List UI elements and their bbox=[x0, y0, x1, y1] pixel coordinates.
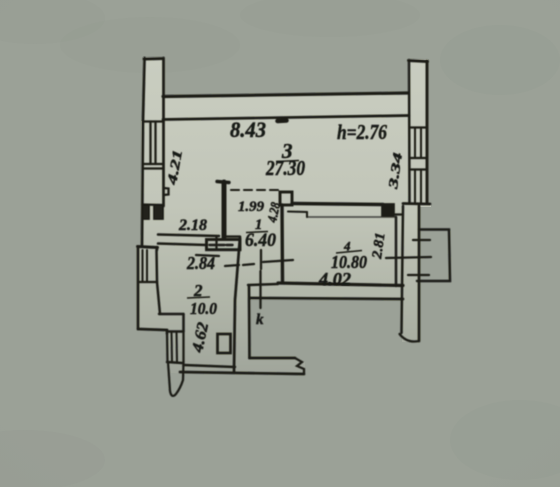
wall: corridor bottom line bbox=[250, 298, 403, 299]
svg-text:4.02: 4.02 bbox=[318, 269, 351, 289]
wall: right pillar right line bbox=[426, 61, 429, 203]
window RW2 inner lines bbox=[414, 170, 416, 203]
wall: top wall lower line bbox=[163, 116, 409, 120]
left wall dark block B bbox=[154, 205, 163, 219]
svg-text:8.43: 8.43 bbox=[230, 117, 266, 142]
black block right end bbox=[382, 204, 394, 216]
svg-text:h=2.76: h=2.76 bbox=[337, 120, 387, 144]
svg-text:1.99: 1.99 bbox=[238, 199, 264, 215]
door tick b bbox=[243, 264, 254, 265]
left wall dark block A bbox=[143, 205, 150, 219]
wall: left outer line upper bbox=[142, 58, 145, 246]
wall: right pillar cap bbox=[409, 61, 428, 62]
tick right wall lower bbox=[408, 274, 429, 276]
door flap bottom-left bbox=[168, 362, 184, 396]
vent square bbox=[280, 192, 292, 205]
underline 3 bbox=[276, 161, 299, 162]
svg-text:2.84: 2.84 bbox=[186, 253, 215, 273]
room1 left wall bbox=[222, 182, 227, 237]
door tick c bbox=[263, 260, 293, 262]
zigzag wall break bbox=[295, 358, 304, 373]
wall: right wall left line bbox=[402, 206, 404, 333]
wall: leg bottom inner bbox=[250, 357, 296, 360]
window RW1 caps bbox=[410, 126, 428, 128]
right pillar bottom cap bbox=[403, 202, 430, 205]
dashed line room1 top bbox=[231, 189, 279, 191]
step room2 bottom-left inner bbox=[159, 313, 184, 315]
vertical tick lower bbox=[259, 271, 261, 308]
wall: left inner line lower bbox=[156, 247, 158, 250]
closet left connector bbox=[215, 236, 217, 248]
window W1 cap bottom bbox=[143, 163, 164, 165]
left wall plain block bottom cap bbox=[142, 203, 164, 206]
connector to right wall bbox=[392, 213, 403, 215]
svg-text:10.0: 10.0 bbox=[190, 299, 217, 318]
tick right wall upper bbox=[413, 239, 430, 241]
window W1 sep line bbox=[143, 167, 164, 169]
vertical tick upper bbox=[260, 250, 262, 269]
room1 left wall cap bbox=[217, 182, 229, 183]
wall: room4 top inner line bbox=[307, 216, 396, 218]
svg-text:6.40: 6.40 bbox=[245, 231, 276, 251]
right wall end cap bbox=[400, 334, 420, 342]
wall: 2.18 wall top line bbox=[158, 235, 219, 237]
wall: 2.18 wall bottom line bbox=[158, 244, 207, 246]
wall: left outer line lower bbox=[137, 247, 140, 329]
underline 4 bbox=[336, 251, 362, 254]
tick right wall middle bbox=[386, 257, 431, 258]
wall: room2 left inner line bbox=[157, 282, 160, 314]
wall: corridor top line right part bbox=[278, 283, 403, 286]
closet dashes bbox=[210, 244, 217, 246]
wall: left inner line upper bbox=[162, 58, 165, 206]
wall: room4 right inner line bbox=[395, 217, 397, 286]
closet top double bbox=[224, 235, 240, 237]
underline 2 bbox=[187, 297, 210, 298]
plan interior light area bbox=[137, 57, 431, 375]
closet rect bbox=[207, 240, 241, 250]
svg-text:2.18: 2.18 bbox=[178, 217, 207, 234]
window W1 left wall cap top bbox=[143, 120, 163, 122]
wall: top-left pillar cap bbox=[144, 57, 163, 60]
wall: room3/4 inner left bbox=[288, 210, 307, 213]
door tick a bbox=[225, 265, 239, 266]
window W2 right edge bbox=[155, 250, 158, 282]
left wall bump bbox=[164, 188, 169, 195]
small rect room2 bbox=[218, 334, 231, 353]
window W2 inner lines bbox=[141, 250, 143, 282]
svg-text:27.30: 27.30 bbox=[265, 156, 305, 180]
wall: leg left line bbox=[248, 286, 251, 358]
wall: right wall right line bbox=[418, 206, 421, 341]
svg-text:k: k bbox=[256, 312, 264, 328]
step room2 bottom-left outer bbox=[138, 329, 167, 330]
room2 bottom inner line bbox=[184, 365, 236, 367]
window RW2 caps bbox=[410, 168, 428, 170]
wall: right pillar left line bbox=[408, 60, 411, 203]
wall: room3/room4 main line bbox=[292, 204, 383, 205]
wall: room1 right wall bbox=[280, 205, 284, 281]
wall: room2 right wall bbox=[234, 237, 240, 372]
room2 door lintel bbox=[196, 255, 219, 256]
window W3 edges bbox=[166, 332, 169, 363]
left wall block cap y246 bbox=[138, 247, 158, 248]
wall: corridor top line left part bbox=[248, 284, 278, 285]
window W2 cap bottom bbox=[138, 281, 157, 283]
window RW1 inner lines bbox=[414, 128, 416, 159]
loggia outline bbox=[417, 230, 450, 282]
window W3 caps bbox=[167, 330, 184, 332]
wall: bottom outer line bbox=[180, 372, 304, 374]
tick on top wall bbox=[278, 118, 287, 123]
wall: top wall upper line bbox=[163, 93, 408, 97]
window W1 inner lines bbox=[149, 122, 151, 165]
underline 1 bbox=[246, 232, 268, 233]
window W3 inner lines bbox=[170, 332, 173, 362]
